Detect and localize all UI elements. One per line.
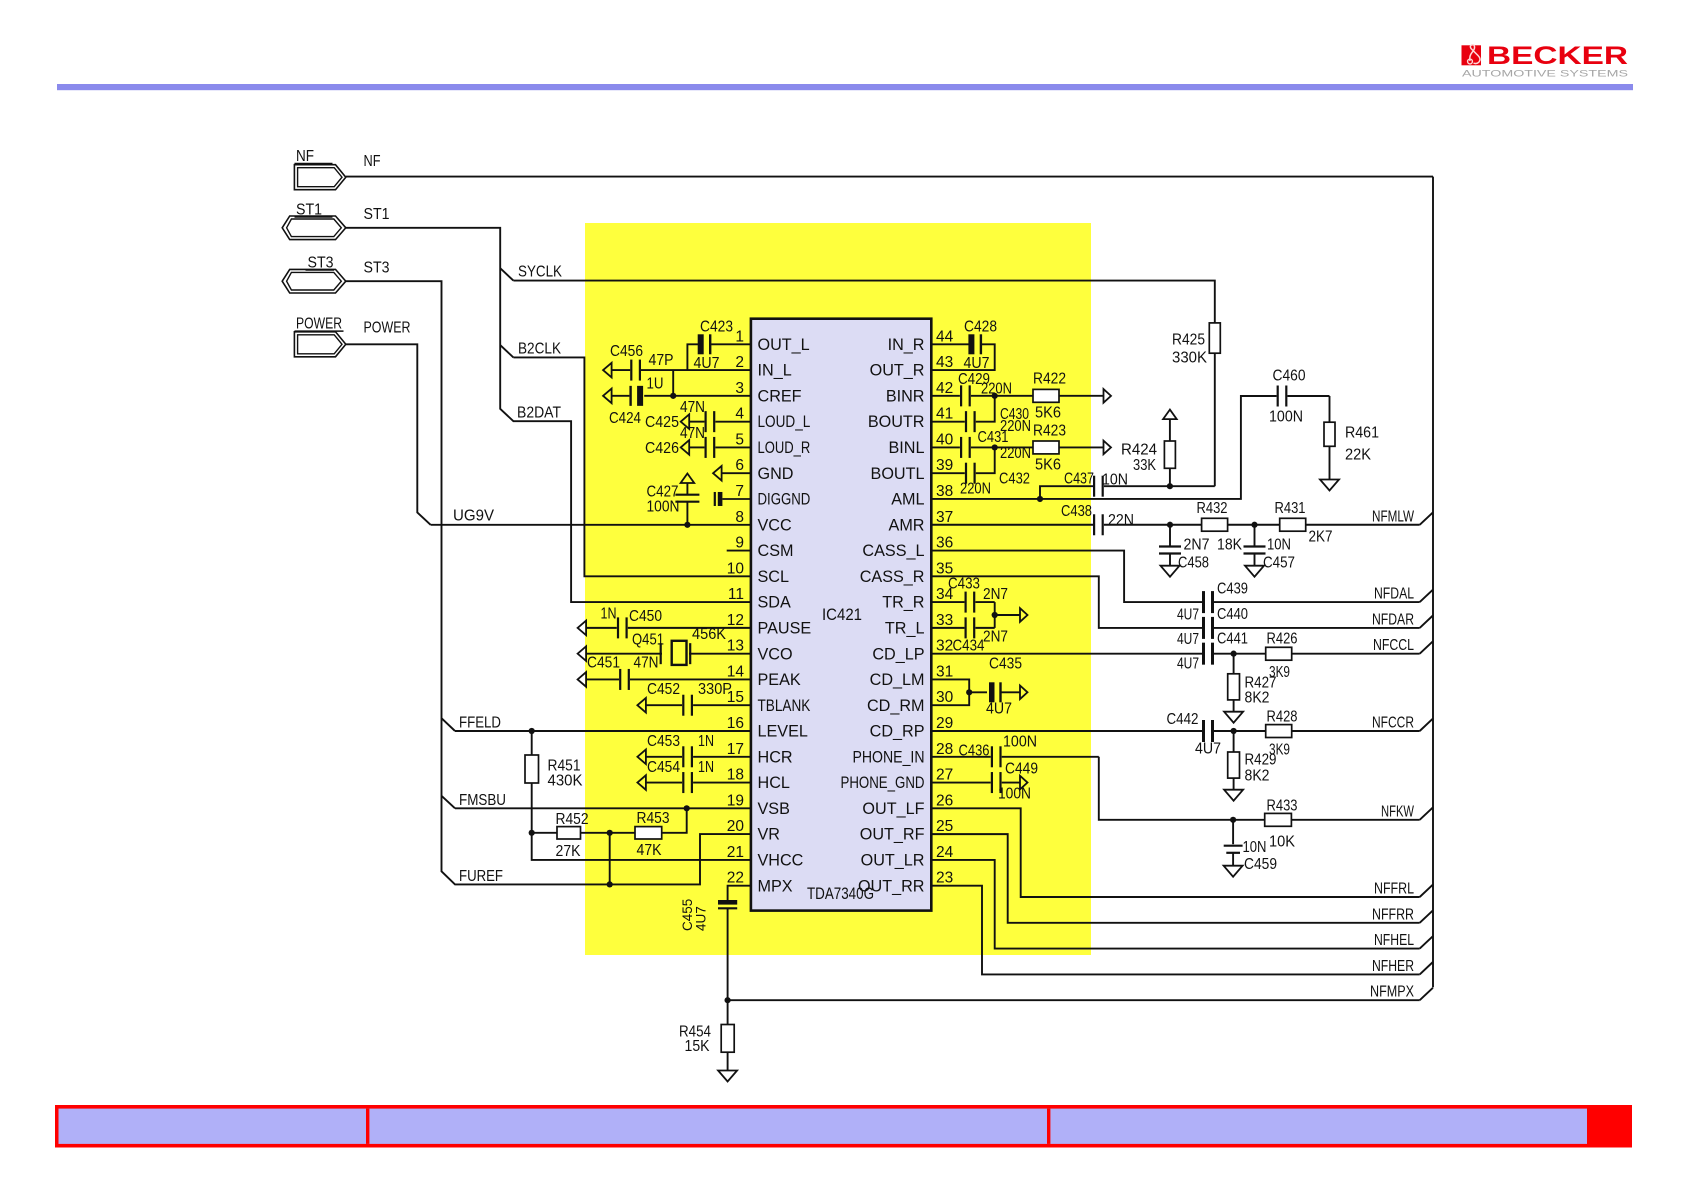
node NFCCL junction (1231, 651, 1237, 657)
pin 22 MPX (727, 870, 793, 896)
svg-text:456K: 456K (692, 626, 726, 643)
capacitor C423 (687, 319, 751, 373)
svg-text:OUT_LR: OUT_LR (861, 852, 925, 870)
pin 30 CD_RM (867, 689, 954, 715)
IC U421 body (751, 319, 931, 911)
wire C456 to CREF (672, 370, 674, 396)
svg-text:C453: C453 (647, 733, 680, 750)
pin 23 OUT_RR (858, 870, 953, 896)
svg-text:POWER: POWER (296, 316, 342, 333)
wire ST3 run (346, 281, 751, 884)
svg-text:1N: 1N (698, 759, 714, 776)
svg-text:2: 2 (735, 354, 744, 371)
svg-text:47N: 47N (634, 655, 659, 672)
svg-text:22N: 22N (1108, 512, 1134, 529)
resistor R452 (532, 811, 635, 860)
svg-text:SDA: SDA (758, 594, 791, 612)
wire NFMPX (728, 999, 1420, 1001)
wire CD_RP NFCCR (931, 730, 1202, 732)
svg-text:BINL: BINL (889, 439, 925, 457)
svg-text:4U7: 4U7 (1177, 607, 1199, 624)
svg-text:ST3: ST3 (364, 260, 390, 277)
svg-text:5K6: 5K6 (1035, 457, 1061, 474)
svg-text:NFFRL: NFFRL (1374, 881, 1414, 898)
pin 21 VHCC (727, 844, 804, 870)
pin 13 VCO (727, 638, 793, 664)
svg-text:20: 20 (727, 818, 745, 835)
wire CASS_L to NFDAL (931, 551, 1202, 603)
output arrow C449 (1020, 776, 1028, 790)
svg-text:IN_R: IN_R (888, 336, 925, 354)
capacitor C430 (931, 396, 1031, 435)
svg-text:TR_L: TR_L (885, 619, 925, 637)
svg-text:4U7: 4U7 (1195, 741, 1221, 758)
node VCC junction (684, 522, 690, 528)
svg-text:C460: C460 (1273, 368, 1306, 385)
svg-text:C425: C425 (645, 414, 679, 431)
resistor R428 (1266, 709, 1420, 759)
wire NF to bus (346, 176, 1433, 178)
pin 18 HCL (727, 767, 790, 793)
svg-text:17: 17 (727, 741, 744, 758)
svg-text:NFCCL: NFCCL (1373, 637, 1414, 654)
svg-text:NF: NF (296, 148, 314, 165)
svg-text:27K: 27K (556, 843, 581, 860)
wire CASS_R to NFDAR (931, 576, 1202, 628)
svg-text:LEVEL: LEVEL (758, 723, 808, 741)
svg-text:B2DAT: B2DAT (517, 405, 561, 422)
wire TR junction (994, 602, 996, 628)
pin 12 PAUSE (727, 612, 812, 638)
svg-text:8K2: 8K2 (1245, 690, 1270, 707)
svg-text:15K: 15K (685, 1038, 710, 1055)
svg-text:44: 44 (936, 328, 954, 345)
ground R429 (1224, 790, 1243, 801)
capacitor C428 (931, 319, 997, 373)
pin 29 CD_RP (870, 715, 954, 741)
bus entry NFFRL (1420, 885, 1433, 897)
svg-text:VR: VR (758, 826, 781, 844)
svg-text:330K: 330K (1172, 350, 1207, 367)
node AMR junction 1 (1167, 522, 1173, 528)
wire POWER run (346, 344, 431, 525)
svg-text:TR_R: TR_R (882, 594, 924, 612)
pin 33 TR_L (885, 612, 953, 638)
svg-text:220N: 220N (960, 481, 991, 498)
pin 8 VCC (735, 509, 792, 535)
output arrow BINR (1104, 389, 1112, 403)
svg-text:C459: C459 (1244, 856, 1277, 873)
svg-text:13: 13 (727, 638, 744, 655)
pin 43 OUT_R (870, 354, 954, 380)
svg-text:23: 23 (936, 870, 953, 887)
svg-text:4: 4 (735, 406, 744, 423)
node NFCCR junction (1231, 728, 1237, 734)
svg-text:47N: 47N (680, 399, 705, 416)
highlight region (585, 223, 1091, 955)
pin 36 CASS_L (862, 535, 953, 561)
svg-text:12: 12 (727, 612, 744, 629)
svg-text:C423: C423 (700, 319, 733, 336)
svg-text:Q451: Q451 (632, 632, 664, 649)
svg-text:SCL: SCL (758, 568, 790, 586)
svg-text:R453: R453 (637, 810, 670, 827)
resistor R423 (995, 423, 1104, 474)
resistor R424 (1121, 419, 1175, 486)
svg-text:37: 37 (936, 509, 953, 526)
node BINR junction (992, 393, 998, 399)
svg-text:31: 31 (936, 663, 953, 680)
pin 6 GND (735, 457, 793, 483)
pin 7 DIGGND (735, 483, 810, 509)
svg-text:47P: 47P (649, 352, 674, 369)
wire CD_LP NFCCL (931, 653, 1202, 655)
svg-text:25: 25 (936, 818, 953, 835)
svg-text:100N: 100N (647, 499, 680, 516)
svg-text:1N: 1N (601, 606, 617, 623)
svg-text:AML: AML (891, 491, 924, 509)
pin 26 OUT_LF (862, 792, 953, 818)
capacitor C435 (931, 656, 1022, 718)
svg-text:R422: R422 (1033, 371, 1066, 388)
svg-text:C449: C449 (1005, 761, 1038, 778)
svg-text:C431: C431 (978, 429, 1009, 446)
svg-text:6: 6 (735, 457, 744, 474)
svg-text:C432: C432 (999, 471, 1030, 488)
ground C459 (1224, 866, 1243, 877)
output arrow BINL (1104, 441, 1112, 455)
svg-text:4U7: 4U7 (1177, 656, 1199, 673)
pin 24 OUT_LR (861, 844, 954, 870)
wire VHCC (532, 833, 751, 860)
bus entry NFDAL (1420, 590, 1433, 602)
pin 9 CSM stub (727, 550, 751, 552)
svg-text:IN_L: IN_L (758, 362, 792, 380)
bus entry NFHEL (1420, 936, 1433, 948)
svg-text:C452: C452 (647, 681, 680, 698)
svg-text:33K: 33K (1133, 457, 1156, 474)
resistor R431 (1275, 500, 1420, 546)
pin 4 LOUD_L (735, 406, 810, 432)
svg-text:NFDAR: NFDAR (1372, 611, 1414, 628)
pin 15 TBLANK (727, 689, 811, 715)
wire FFELD to LEVEL pin16 (455, 730, 751, 732)
resistor R461 (1324, 396, 1379, 480)
ground R427 (1224, 712, 1243, 723)
svg-text:C438: C438 (1061, 503, 1092, 520)
bus entry NFCCR (1420, 719, 1433, 731)
wire OUT_RF to NFFRR (931, 834, 1419, 923)
svg-text:18: 18 (727, 767, 744, 784)
svg-text:C439: C439 (1217, 581, 1248, 598)
svg-text:IC421: IC421 (822, 606, 862, 624)
svg-text:C426: C426 (645, 440, 679, 457)
svg-text:36: 36 (936, 535, 953, 552)
svg-text:29: 29 (936, 715, 953, 732)
node C435 junction (966, 689, 972, 695)
net label tap FMSBU (442, 796, 456, 809)
svg-text:19: 19 (727, 792, 744, 809)
svg-text:HCR: HCR (758, 748, 793, 766)
wire OUT_RR to NFHER (931, 886, 1419, 975)
svg-text:1: 1 (735, 328, 744, 345)
capacitor C429 (931, 371, 1012, 406)
svg-text:14: 14 (727, 663, 745, 680)
svg-text:1U: 1U (647, 376, 664, 393)
wire B2CLK to SCL (513, 357, 751, 576)
svg-text:24: 24 (936, 844, 954, 861)
pin 10 SCL (727, 560, 789, 586)
svg-text:C435: C435 (989, 656, 1022, 673)
connector ST3 (282, 255, 346, 294)
pin 44 IN_R (888, 328, 954, 354)
node BINL junction (992, 444, 998, 450)
node AMR junction 2 (1251, 522, 1257, 528)
capacitor C452 (637, 681, 751, 716)
svg-text:CSM: CSM (758, 542, 794, 560)
svg-text:R426: R426 (1267, 631, 1298, 648)
svg-text:33: 33 (936, 612, 953, 629)
pin 32 CD_LP (872, 638, 953, 664)
svg-text:OUT_RR: OUT_RR (858, 877, 925, 895)
pin 35 CASS_R (860, 560, 954, 586)
pin 31 CD_LM (870, 663, 954, 689)
svg-text:C450: C450 (629, 608, 662, 625)
svg-text:C436: C436 (959, 743, 990, 760)
svg-text:C456: C456 (610, 343, 643, 360)
svg-text:VCC: VCC (758, 516, 792, 534)
svg-text:NFMPX: NFMPX (1370, 984, 1414, 1001)
resistor R451 (525, 731, 583, 833)
svg-text:430K: 430K (548, 773, 583, 790)
svg-text:5: 5 (735, 431, 744, 448)
capacitor C433 (931, 576, 1008, 613)
svg-text:C428: C428 (964, 319, 997, 336)
wire OUT_LF to NFFRL (931, 808, 1419, 897)
svg-text:C441: C441 (1217, 631, 1248, 648)
pin 34 TR_R (882, 586, 953, 612)
svg-text:R423: R423 (1033, 423, 1066, 440)
node NFMPX junction (725, 997, 731, 1003)
svg-text:C457: C457 (1263, 555, 1295, 572)
node AML junction (1037, 496, 1043, 502)
connector POWER (294, 316, 345, 357)
capacitor C451 (578, 655, 751, 690)
bus entry NFDAR (1420, 616, 1433, 628)
capacitor C456 (603, 343, 751, 381)
svg-text:NFKW: NFKW (1381, 803, 1415, 820)
svg-text:2K7: 2K7 (1309, 529, 1333, 546)
wire AML to C460 (931, 396, 1276, 499)
svg-text:40: 40 (936, 431, 954, 448)
pin 41 BOUTR (868, 406, 953, 432)
bus entry NFKW (1420, 807, 1433, 819)
ground R454 (718, 1071, 737, 1082)
node R452 junctions (529, 830, 535, 836)
svg-text:NF: NF (364, 153, 381, 170)
resistor R432 (1197, 500, 1280, 554)
svg-text:CD_RM: CD_RM (867, 697, 925, 715)
svg-text:C458: C458 (1178, 555, 1209, 572)
svg-text:4U7: 4U7 (986, 701, 1012, 718)
bus entry NFMLW (1420, 512, 1433, 524)
resistor R429 (1228, 731, 1277, 790)
svg-text:R433: R433 (1267, 798, 1298, 815)
svg-text:R432: R432 (1197, 500, 1228, 517)
pin 19 VSB (727, 792, 790, 818)
capacitor C453 (637, 733, 751, 767)
svg-text:26: 26 (936, 792, 953, 809)
wire OUT_LR to NFHEL (931, 860, 1419, 949)
pin 37 AMR (889, 509, 954, 535)
capacitor C431 (931, 429, 1031, 462)
net label tap B2CLK (500, 345, 513, 357)
svg-text:PEAK: PEAK (758, 671, 801, 689)
capacitor C459 (1224, 820, 1277, 873)
svg-text:NFHEL: NFHEL (1374, 932, 1414, 949)
svg-text:C434: C434 (953, 638, 985, 655)
ground R461 (1320, 480, 1339, 491)
svg-text:4U7: 4U7 (1177, 631, 1199, 648)
svg-text:FMSBU: FMSBU (459, 792, 506, 809)
svg-text:R461: R461 (1345, 425, 1379, 442)
svg-text:CD_RP: CD_RP (870, 723, 925, 741)
svg-text:10N: 10N (1102, 472, 1128, 489)
bus entry NFCCL (1420, 641, 1433, 653)
svg-text:42: 42 (936, 380, 953, 397)
pin 38 AML (891, 483, 953, 509)
svg-text:PHONE_GND: PHONE_GND (841, 774, 925, 792)
svg-text:10N: 10N (1243, 839, 1267, 856)
pin 25 OUT_RF (860, 818, 954, 844)
svg-text:39: 39 (936, 457, 953, 474)
wire UG9V to VCC pin8 (431, 524, 751, 526)
node NFKW junction (1230, 817, 1236, 823)
svg-text:10: 10 (727, 560, 745, 577)
connector NF (294, 148, 345, 190)
svg-text:7: 7 (735, 483, 744, 500)
bus NF vertical (1432, 177, 1434, 988)
resistor R453 (635, 808, 687, 859)
capacitor C426 (645, 425, 751, 458)
wire ST1 run (346, 228, 751, 602)
svg-text:BINR: BINR (886, 387, 925, 405)
svg-text:100N: 100N (1003, 734, 1037, 751)
svg-text:OUT_R: OUT_R (870, 362, 925, 380)
svg-text:NFMLW: NFMLW (1372, 508, 1415, 525)
pin 17 HCR (727, 741, 793, 767)
svg-text:38: 38 (936, 483, 953, 500)
svg-text:CASS_L: CASS_L (862, 542, 924, 560)
node VSB junction (684, 805, 690, 811)
svg-text:PHONE_IN: PHONE_IN (853, 748, 925, 766)
svg-text:C451: C451 (587, 655, 620, 672)
svg-text:PAUSE: PAUSE (758, 619, 812, 637)
pin 2 IN_L (735, 354, 791, 380)
resistor R427 (1228, 654, 1277, 712)
pin 7 DIGGND symbol (715, 492, 751, 506)
pin 3 CREF (735, 380, 801, 406)
pin 27 PHONE_GND (841, 767, 954, 793)
svg-text:5K6: 5K6 (1035, 405, 1061, 422)
svg-text:1N: 1N (698, 733, 714, 750)
svg-text:ST1: ST1 (364, 206, 390, 223)
svg-text:C424: C424 (609, 410, 641, 427)
node C437 junction (1167, 483, 1173, 489)
svg-text:R424: R424 (1121, 442, 1157, 459)
svg-text:41: 41 (936, 406, 953, 423)
svg-text:30: 30 (936, 689, 954, 706)
resistor R433 (1265, 798, 1298, 851)
pin 1 OUT_L (735, 328, 809, 354)
svg-text:C437: C437 (1064, 471, 1094, 488)
capacitor C424 (603, 376, 751, 428)
svg-text:TBLANK: TBLANK (758, 697, 811, 715)
svg-text:2N7: 2N7 (1184, 537, 1210, 554)
svg-text:BOUTR: BOUTR (868, 413, 925, 431)
pin 11 SDA (728, 586, 791, 612)
svg-text:R428: R428 (1267, 709, 1298, 726)
bus entry NFHER (1420, 962, 1433, 974)
wire R453 to FUREF (609, 833, 611, 885)
connector ST1 (282, 202, 346, 240)
wire PHONE_IN to NFKW (1099, 757, 1420, 820)
capacitor C432 (931, 447, 1030, 497)
svg-text:3: 3 (735, 380, 744, 397)
svg-text:CD_LP: CD_LP (872, 645, 924, 663)
wire FMSBU to VSB pin19 (455, 807, 751, 809)
svg-text:R429: R429 (1245, 752, 1277, 769)
pin 28 PHONE_IN (853, 741, 954, 767)
pin 6 GND arrow (713, 466, 751, 481)
pin 20 VR (727, 818, 780, 844)
header rule bar (57, 84, 1633, 90)
svg-text:C454: C454 (647, 759, 680, 776)
svg-text:8K2: 8K2 (1245, 768, 1270, 785)
resistor R425 (1172, 323, 1220, 486)
supply arrow R424 (1163, 410, 1177, 420)
svg-text:LOUD_L: LOUD_L (758, 413, 811, 431)
capacitor C460 (1269, 368, 1330, 426)
svg-text:NFFRR: NFFRR (1372, 906, 1414, 923)
capacitor C434 (931, 617, 1008, 654)
svg-text:AMR: AMR (889, 516, 925, 534)
svg-text:BOUTL: BOUTL (871, 465, 925, 483)
node FUREF junction (607, 881, 613, 887)
node CREF junction (670, 393, 676, 399)
wire AMR NFMLW (931, 524, 1093, 526)
pin 16 LEVEL (727, 715, 808, 741)
svg-text:OUT_L: OUT_L (758, 336, 810, 354)
svg-text:DIGGND: DIGGND (758, 491, 811, 509)
svg-text:43: 43 (936, 354, 953, 371)
svg-text:VSB: VSB (758, 800, 790, 818)
svg-text:8: 8 (735, 509, 744, 526)
svg-text:R425: R425 (1172, 332, 1205, 349)
svg-text:100N: 100N (1269, 409, 1303, 426)
svg-text:18K: 18K (1217, 537, 1242, 554)
svg-text:47N: 47N (680, 425, 705, 442)
svg-text:NFHER: NFHER (1372, 958, 1414, 975)
resistor R422 (995, 371, 1104, 422)
svg-text:BECKER: BECKER (1487, 42, 1628, 70)
capacitor C440 (1177, 606, 1420, 648)
pin 42 BINR (886, 380, 953, 406)
svg-text:9: 9 (735, 535, 744, 552)
svg-text:FUREF: FUREF (459, 868, 503, 885)
pin 40 BINL (889, 431, 954, 457)
svg-text:NFCCR: NFCCR (1372, 715, 1414, 732)
